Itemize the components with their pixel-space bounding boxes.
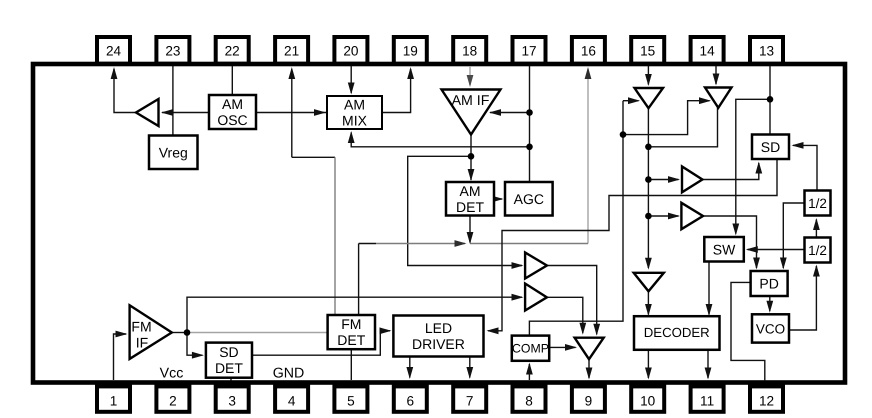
wire FM IF output xyxy=(172,332,187,334)
wire AM DET out down xyxy=(469,216,471,243)
wire divider2 to SW right xyxy=(748,249,805,251)
svg-text:22: 22 xyxy=(225,44,240,59)
svg-text:IF: IF xyxy=(136,334,148,350)
svg-text:24: 24 xyxy=(106,44,122,59)
wire mute amp to DECODER xyxy=(647,291,649,314)
pin 20 xyxy=(334,37,367,64)
block FM DET xyxy=(328,315,375,349)
wire pin 21 riser xyxy=(291,69,293,157)
svg-text:DET: DET xyxy=(215,360,243,376)
wire amp B out to output amp xyxy=(547,297,583,333)
wire AM IF out to AM DET xyxy=(470,135,472,181)
node limiter junction xyxy=(620,131,627,138)
svg-text:21: 21 xyxy=(284,44,299,59)
wire detector out to pin 16 gray xyxy=(587,69,589,244)
amp mute to DECODER xyxy=(634,273,664,292)
wire trunk to amp2 xyxy=(648,215,678,217)
svg-text:19: 19 xyxy=(403,44,418,59)
svg-text:13: 13 xyxy=(759,44,774,59)
svg-text:AM IF: AM IF xyxy=(452,93,490,109)
wire detector bus gray xyxy=(470,243,588,245)
svg-text:AM: AM xyxy=(460,183,481,199)
svg-text:FM: FM xyxy=(131,319,151,335)
svg-text:SD: SD xyxy=(219,344,238,360)
block AGC xyxy=(505,182,553,216)
svg-text:8: 8 xyxy=(525,394,533,409)
wire FM IF node to amp B xyxy=(187,297,522,332)
pin 13 xyxy=(750,37,783,64)
wire SD DET to LED DRIVER xyxy=(252,331,390,355)
svg-text:7: 7 xyxy=(466,394,474,409)
svg-text:10: 10 xyxy=(640,394,656,409)
wire divider1 to PD top xyxy=(783,203,804,268)
svg-text:LED: LED xyxy=(425,320,452,336)
block LED DRIVER xyxy=(393,316,483,357)
pin 14 xyxy=(691,37,724,64)
wire trunk to pin14 amp output xyxy=(648,108,717,147)
wire pin 20 to AM MIX xyxy=(350,66,352,93)
svg-text:AM: AM xyxy=(222,96,243,112)
pin 21 xyxy=(275,37,308,64)
buffer amp AM OSC xyxy=(136,99,159,126)
svg-text:Vreg: Vreg xyxy=(159,144,188,160)
wire SD DET to pin 3 xyxy=(230,378,232,381)
block COMP xyxy=(512,336,549,361)
block SW xyxy=(704,237,744,262)
wire buffer output to pin 24 xyxy=(114,69,136,113)
amplifier AM IF xyxy=(442,90,501,135)
block VCO xyxy=(752,314,789,342)
pin 17 xyxy=(513,37,546,64)
svg-text:9: 9 xyxy=(585,394,593,409)
pin 11 xyxy=(691,386,724,411)
block AM MIX xyxy=(327,96,382,129)
block SD xyxy=(752,135,789,160)
wire FM IF node to SD DET xyxy=(187,333,202,356)
amp pin 15 input xyxy=(635,88,664,108)
wire pin 23 to Vreg xyxy=(172,66,174,136)
svg-text:SD: SD xyxy=(761,139,780,155)
node pin17 AGC junction upper xyxy=(526,109,533,116)
wire FM DET to pin 5 xyxy=(350,349,352,380)
block divider 1/2 upper xyxy=(805,191,831,216)
wire AM MIX out to pin 19 xyxy=(382,69,411,113)
wire pin 8 to COMP xyxy=(528,364,530,380)
wire pin13 node to SW top xyxy=(736,99,770,233)
wire PD to pin 12 xyxy=(731,282,765,381)
wire pin 1 to FM IF xyxy=(114,334,127,380)
svg-text:DECODER: DECODER xyxy=(644,325,710,340)
pin 2 xyxy=(156,386,189,411)
svg-text:VCO: VCO xyxy=(756,321,785,336)
svg-text:20: 20 xyxy=(343,44,359,59)
block PD xyxy=(751,271,788,296)
node pin17 AGC junction lower xyxy=(526,144,533,151)
pin 16 xyxy=(572,37,605,64)
wire FM DET top riser xyxy=(358,244,360,316)
pin 8 xyxy=(513,386,546,411)
wire divider1 to SD right xyxy=(793,145,817,190)
svg-text:14: 14 xyxy=(700,44,716,59)
amp A audio xyxy=(525,253,547,279)
svg-text:DET: DET xyxy=(456,199,484,215)
wire pin 15 down xyxy=(647,66,649,85)
pin 4 xyxy=(275,386,308,411)
wire FM DET up corner xyxy=(359,243,376,245)
svg-text:16: 16 xyxy=(581,44,596,59)
svg-text:OSC: OSC xyxy=(217,112,247,128)
svg-text:6: 6 xyxy=(407,394,415,409)
amp pin 14 input xyxy=(705,88,732,108)
pin 7 xyxy=(453,386,486,411)
pin 12 xyxy=(750,386,783,411)
svg-text:AGC: AGC xyxy=(514,191,544,207)
wire AM DET to AGC xyxy=(494,198,502,200)
svg-text:Vcc: Vcc xyxy=(160,366,184,382)
wire LED DRIVER to pin 6 xyxy=(409,357,411,378)
svg-text:MIX: MIX xyxy=(342,113,368,129)
svg-text:AM: AM xyxy=(344,97,365,113)
pin 5 xyxy=(334,386,367,411)
node AM IF output junction xyxy=(468,153,475,160)
svg-text:GND: GND xyxy=(273,366,305,382)
wire limiter node to COMP xyxy=(529,101,623,335)
svg-text:DET: DET xyxy=(337,332,365,348)
svg-text:17: 17 xyxy=(521,44,536,59)
svg-text:PD: PD xyxy=(759,276,778,292)
wire amp A out to output amp xyxy=(547,266,597,335)
wire amp1 out to SD bottom xyxy=(702,163,758,180)
block Vreg xyxy=(149,136,198,170)
amp output to pin 9 xyxy=(575,338,604,360)
pin 3 xyxy=(216,386,249,411)
wire LED DRIVER to pin 7 xyxy=(469,357,471,378)
wire pin 22 to AM OSC xyxy=(231,66,233,95)
svg-text:2: 2 xyxy=(169,394,177,409)
wire COMP to output amp xyxy=(549,346,575,348)
amp B audio xyxy=(525,284,547,311)
svg-text:4: 4 xyxy=(288,394,296,409)
svg-text:23: 23 xyxy=(165,44,180,59)
wire DECODER to pin 10 xyxy=(647,350,649,378)
wire divider2 to divider1 xyxy=(815,220,817,238)
wire pin 13 to SD xyxy=(769,66,771,135)
wire AM OSC to buffer input xyxy=(162,112,209,114)
wire DECODER to pin 11 xyxy=(707,350,709,378)
pin 10 xyxy=(631,386,664,411)
wire pin 18 to AM IF gray xyxy=(469,66,471,85)
svg-text:1/2: 1/2 xyxy=(808,196,827,211)
svg-text:12: 12 xyxy=(759,394,774,409)
svg-text:18: 18 xyxy=(462,44,477,59)
svg-text:11: 11 xyxy=(700,394,714,409)
wire pin17 node to AM IF right xyxy=(490,112,530,114)
pin 1 xyxy=(97,386,130,411)
node FM IF output junction xyxy=(184,329,191,336)
block divider 1/2 lower xyxy=(805,238,831,263)
wire pin15 amp output trunk xyxy=(647,108,649,268)
node trunk junction 2 xyxy=(645,176,652,183)
wire pin 17 to AGC xyxy=(529,66,531,182)
pin 22 xyxy=(216,37,249,64)
node trunk junction 1 xyxy=(645,144,652,151)
pin 9 xyxy=(572,386,605,411)
block AM DET xyxy=(446,182,494,216)
svg-text:FM: FM xyxy=(341,316,361,332)
pin 6 xyxy=(394,386,427,411)
node trunk junction 3 xyxy=(645,213,652,220)
amp 2 to PD xyxy=(681,203,703,229)
wire to FM DET top gray xyxy=(334,157,336,315)
wire pin 14 down xyxy=(715,66,717,84)
wire limiter node to pin15 amp xyxy=(623,100,639,102)
block DECODER xyxy=(634,316,720,350)
pin 18 xyxy=(453,37,486,64)
amplifier FM IF xyxy=(130,305,172,359)
wire pin 21 corner xyxy=(292,156,335,158)
svg-text:1/2: 1/2 xyxy=(808,243,827,258)
svg-text:COMP: COMP xyxy=(512,342,549,356)
node pin13 junction xyxy=(767,96,774,103)
wire AM OSC to AM MIX xyxy=(256,112,326,114)
wire PD to VCO xyxy=(769,296,771,311)
svg-text:3: 3 xyxy=(228,394,236,409)
wire SD out to LED DRIVER xyxy=(488,159,777,331)
wire detector bus gray left xyxy=(376,243,465,245)
pin 15 xyxy=(631,37,664,64)
wire FM IF to FM DET gray xyxy=(187,332,328,334)
svg-text:DRIVER: DRIVER xyxy=(412,336,465,352)
pin 24 xyxy=(97,37,130,64)
block SD DET xyxy=(206,343,252,378)
wire AM IF node to amp A xyxy=(408,156,522,265)
wire output amp to pin 9 xyxy=(588,359,590,378)
wire SW to DECODER xyxy=(708,262,710,315)
svg-text:1: 1 xyxy=(110,394,118,409)
wire VCO to divider2 xyxy=(789,266,816,330)
amp 1 to SD xyxy=(682,167,702,193)
pin 19 xyxy=(394,37,427,64)
svg-text:15: 15 xyxy=(640,44,655,59)
wire pin17 node to AM MIX bottom xyxy=(351,133,529,147)
wire amp2 out to PD top xyxy=(703,216,757,268)
svg-text:5: 5 xyxy=(347,394,355,409)
pin 23 xyxy=(156,37,189,64)
wire trunk to amp1 xyxy=(648,179,678,181)
wire limiter node to pin14 amp xyxy=(623,101,710,135)
IC body outline xyxy=(33,64,845,383)
block AM OSC xyxy=(209,95,256,129)
svg-text:SW: SW xyxy=(713,241,736,257)
